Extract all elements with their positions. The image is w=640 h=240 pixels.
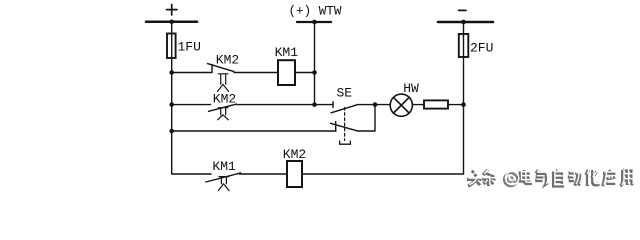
svg-text:KM2: KM2 [283,147,306,162]
wire: row1 right segment [295,72,315,74]
svg-text:(+) WTW: (+) WTW [289,5,342,19]
node: WTW row1 junction [312,70,317,75]
linkage: SE dashed actuator line [344,108,346,141]
wire: to lamp [375,104,390,106]
coil KM2 [287,161,302,187]
wire: row3 after SE [357,130,375,132]
wire: row2 after SE [357,104,375,106]
node: left bus row1 junction [169,70,174,75]
resistor [424,100,448,108]
pushbutton SE pole1 NO [331,102,357,113]
svg-text:KM1: KM1 [275,45,299,60]
watermark @ sign [504,173,517,186]
positive supply bar [146,21,197,24]
node: junction dot on - bar [461,20,466,25]
svg-text:2FU: 2FU [470,40,493,55]
svg-text:HW: HW [403,81,419,96]
wire: bottom row left segment [172,173,211,175]
wire: bottom middle segment [240,173,288,175]
contact KM1 NO (bottom) [206,173,241,191]
watermark white highlight [468,169,633,185]
node: SE output junction [373,102,378,107]
svg-text:KM1: KM1 [212,159,236,174]
node: left bus row3 junction [169,129,174,134]
minus terminal label [459,9,466,11]
wire: lamp to resistor [412,104,424,106]
wire: row3 segment [172,130,336,132]
coil KM1 [278,60,295,85]
fuse 2FU [459,34,469,57]
node: right bus row2 junction [461,102,466,107]
svg-text:1FU: 1FU [178,40,201,55]
wire: row2 left segment [172,104,211,106]
actuator: SE pushbutton bracket [340,141,351,144]
wire: WTW vertical [314,22,316,105]
watermark 头条@电气自动化应用 [467,170,632,186]
svg-text:KM2: KM2 [216,53,239,68]
wire: bottom right segment [302,173,464,175]
svg-text:KM2: KM2 [213,91,236,106]
WTW supply bar [297,21,331,23]
node: WTW row2 junction [312,102,317,107]
wire: row2 middle segment [237,104,334,106]
contact KM2 NC (row1) [208,64,235,92]
wire: row3 riser to row2 [374,105,376,131]
wire: row1 left segment [172,72,212,74]
svg-text:SE: SE [337,85,353,100]
node: left bus row2 junction [169,102,174,107]
negative supply bar [438,21,493,24]
plus terminal label [167,4,178,15]
fuse 1FU [167,34,176,59]
pushbutton SE pole2 NC [331,122,357,131]
node: junction dot on WTW bar [312,20,317,25]
wire: row1 middle segment [234,72,278,74]
contact KM2 NO (row2) [209,104,237,120]
lamp HW [390,94,412,116]
wire: left bus vertical [171,22,173,174]
node: junction dot on + bar [169,20,174,25]
wire: resistor to right bus [448,104,464,106]
wire: right bus vertical [463,22,465,174]
